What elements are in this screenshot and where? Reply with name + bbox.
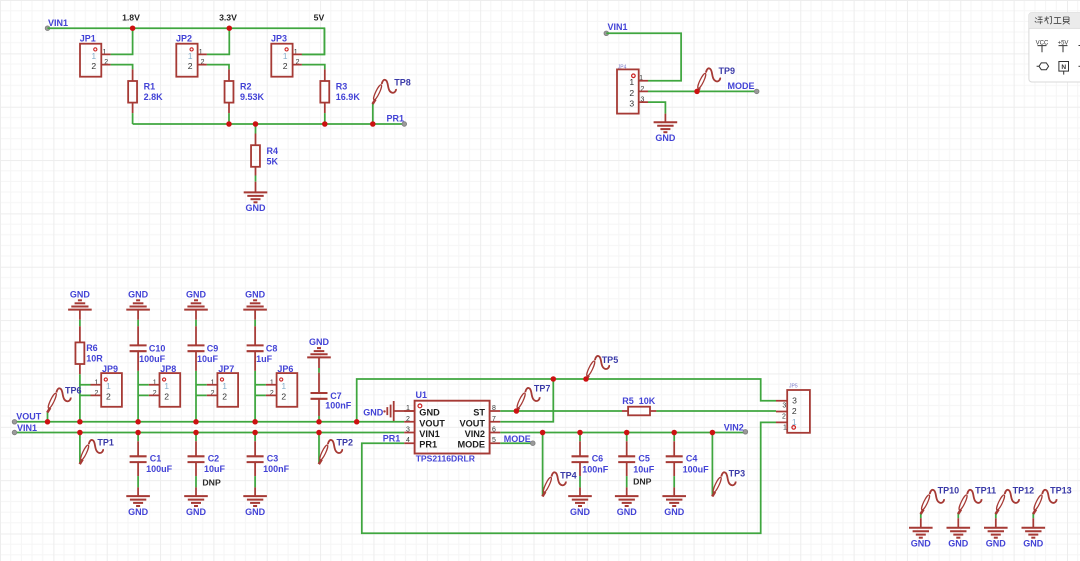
resistor R1 2.8K [132, 69, 134, 113]
svg-text:1: 1 [783, 424, 787, 431]
node VIN2 port [743, 430, 748, 435]
svg-text:TP13: TP13 [1050, 485, 1072, 495]
ground above C8 [243, 300, 267, 309]
svg-text:JP5: JP5 [789, 384, 798, 390]
ground below C2 [195, 487, 197, 496]
wire C6 to ground [579, 476, 581, 487]
wire C5 to ground [626, 476, 628, 487]
svg-text:100nF: 100nF [263, 464, 290, 474]
junction VIN1 bus [316, 430, 322, 436]
wire TP8 to PR1 bus [372, 103, 374, 124]
svg-text:3: 3 [792, 395, 797, 405]
resistor R4 5K [255, 134, 257, 176]
wire riser to U1 pin7 [500, 379, 553, 422]
wire R1 bottom to PR1 bus [132, 113, 134, 124]
capacitor C3 100nF [254, 433, 256, 442]
test point TP5 [585, 356, 609, 380]
junction R4/bus [253, 121, 259, 127]
svg-text:C8: C8 [266, 344, 278, 354]
test point TP3 [712, 472, 736, 496]
svg-text:C6: C6 [592, 454, 604, 464]
svg-text:VOUT: VOUT [459, 418, 485, 428]
svg-text:100uF: 100uF [683, 464, 710, 474]
svg-text:ST: ST [473, 408, 485, 418]
wire R6 to VOUT bus [79, 374, 81, 422]
junction 1.8V [130, 25, 136, 31]
svg-text:1.8V: 1.8V [122, 13, 140, 23]
svg-text:GND: GND [363, 407, 384, 417]
wire PR1 loop [362, 422, 776, 533]
svg-text:2.8K: 2.8K [144, 92, 164, 102]
JP9 pin stubs [91, 385, 102, 396]
svg-text:6: 6 [492, 427, 496, 434]
resistor R6 10R [79, 326, 81, 374]
wire TP3 drop [711, 433, 713, 496]
capacitor C1 100uF [137, 433, 139, 442]
svg-text:1: 1 [283, 51, 288, 61]
junction VOUT bus [135, 419, 141, 425]
svg-text:7: 7 [492, 416, 496, 423]
svg-text:GND: GND [246, 203, 267, 213]
svg-text:C2: C2 [208, 453, 220, 463]
node MODE port (top) [754, 89, 759, 94]
junction TP5 [583, 376, 589, 382]
wire JP9 pins to column [80, 385, 91, 396]
svg-text:10uF: 10uF [204, 464, 226, 474]
capacitor C9 10uF [195, 326, 197, 371]
svg-text:GND: GND [186, 289, 207, 299]
U1 left pin stubs [404, 411, 414, 443]
wire TP1 to VIN1 bus [79, 433, 81, 464]
svg-text:100uF: 100uF [146, 464, 173, 474]
junction VIN2 row [540, 430, 546, 436]
wire C2 to ground [195, 476, 197, 487]
wire JP6 pins to column [255, 385, 266, 396]
svg-text:10R: 10R [86, 354, 103, 364]
svg-text:PR1: PR1 [419, 440, 437, 450]
junction VIN1 bus [135, 430, 141, 436]
svg-text:VIN1: VIN1 [48, 18, 68, 28]
svg-text:N: N [1061, 64, 1066, 71]
svg-text:TPS2116DRLR: TPS2116DRLR [416, 454, 476, 464]
ground below R4 [255, 182, 257, 193]
ground below TP11 [957, 518, 959, 528]
svg-text:TP6: TP6 [65, 386, 82, 396]
svg-text:MODE: MODE [728, 81, 755, 91]
svg-text:JP1: JP1 [80, 34, 96, 44]
svg-text:GND: GND [617, 507, 638, 517]
svg-text:GND: GND [128, 507, 149, 517]
svg-text:GND: GND [70, 289, 91, 299]
capacitor C4 100uF [673, 433, 675, 442]
wire C10 to VOUT bus [137, 371, 139, 422]
svg-text:1: 1 [222, 381, 227, 391]
svg-text:5K: 5K [267, 156, 279, 166]
capacitor C5 10uF [626, 433, 628, 442]
wire ground to C8 [254, 310, 256, 320]
svg-text:TP9: TP9 [719, 66, 736, 76]
svg-text:9.53K: 9.53K [240, 92, 265, 102]
svg-text:C3: C3 [267, 453, 279, 463]
ground below C5 [626, 487, 628, 496]
wire ground to C9 [195, 310, 197, 320]
node PR1 port (top) [402, 122, 407, 127]
wire ground to R6 [79, 310, 81, 320]
JP8 pin stubs [149, 385, 160, 396]
JP6 pin stubs [266, 385, 277, 396]
ground JP4 pin3 [664, 114, 666, 123]
svg-text:MODE: MODE [504, 434, 531, 444]
svg-text:GND: GND [664, 507, 685, 517]
node VIN1 port (top-right) [604, 31, 609, 36]
junction TP7 [514, 408, 520, 414]
svg-text:2: 2 [406, 416, 410, 423]
svg-text:JP3: JP3 [271, 34, 287, 44]
svg-text:10K: 10K [639, 396, 656, 406]
wire C1 to ground [137, 476, 139, 487]
svg-text:TP3: TP3 [729, 469, 746, 479]
wire JP4 pin3 to ground [648, 102, 665, 114]
svg-text:2: 2 [283, 61, 288, 71]
svg-text:DNP: DNP [202, 478, 221, 488]
svg-text:2: 2 [91, 61, 96, 71]
test point TP11 [958, 490, 982, 514]
svg-text:VIN1: VIN1 [419, 429, 439, 439]
capacitor C6 100nF [579, 433, 581, 442]
junction VOUT riser [551, 376, 557, 382]
wire JP8 pins to column [138, 385, 149, 396]
test point TP4 [542, 472, 566, 496]
ground above C7 [307, 348, 331, 357]
junction VIN2 row [671, 430, 677, 436]
svg-text:GND: GND [245, 289, 266, 299]
svg-text:R3: R3 [336, 82, 348, 92]
junction VIN1 bus [252, 430, 258, 436]
svg-text:2: 2 [164, 392, 169, 402]
svg-text:3: 3 [406, 427, 410, 434]
svg-text:2: 2 [188, 61, 193, 71]
test point TP12 [995, 490, 1019, 514]
svg-text:R5: R5 [622, 396, 634, 406]
wire R5 to JP5 pin2 [656, 410, 776, 412]
svg-text:TP2: TP2 [337, 437, 354, 447]
wire TP4 drop [542, 433, 544, 496]
node VOUT port [12, 420, 17, 425]
svg-text:1: 1 [164, 381, 169, 391]
test point TP2 [318, 440, 342, 464]
wire R2 bottom to PR1 bus [228, 113, 230, 124]
wire VIN1 horizontal to 5V corner [48, 28, 325, 54]
wire U1 ST to R5 [500, 410, 622, 412]
svg-text:GND: GND [245, 507, 266, 517]
svg-text:3: 3 [629, 99, 634, 109]
capacitor C8 1uF [254, 326, 256, 371]
svg-text:TP12: TP12 [1013, 485, 1035, 495]
wire ground to C10 [137, 310, 139, 320]
wire R3 bottom to PR1 bus [324, 113, 326, 124]
svg-text:VIN2: VIN2 [465, 429, 485, 439]
svg-text:16.9K: 16.9K [336, 92, 361, 102]
wire JP2 pin2 to R2 [207, 65, 229, 70]
svg-text:GND: GND [911, 539, 932, 549]
svg-text:R2: R2 [240, 82, 252, 92]
resistor R3 16.9K [324, 69, 326, 113]
junction VOUT bus [193, 419, 199, 425]
svg-text:U1: U1 [416, 390, 428, 400]
JP4 pin stubs [639, 81, 648, 102]
svg-text:GND: GND [128, 289, 149, 299]
wire JP7 pins to column [196, 385, 207, 396]
ground below TP12 [995, 518, 997, 528]
wire PR1 bus (top) [133, 123, 405, 125]
svg-text:2: 2 [281, 392, 286, 402]
junction VIN2 row [710, 430, 716, 436]
svg-text:R1: R1 [144, 82, 156, 92]
junction VIN1 bus [77, 430, 83, 436]
wire C3 to ground [254, 476, 256, 487]
svg-text:1: 1 [106, 381, 111, 391]
junction VOUT bus [354, 419, 360, 425]
svg-text:MODE: MODE [457, 440, 485, 450]
svg-text:R4: R4 [267, 146, 279, 156]
svg-text:GND: GND [570, 507, 591, 517]
svg-text:TP1: TP1 [97, 437, 114, 447]
svg-text:1uF: 1uF [256, 354, 273, 364]
ground below C3 [254, 487, 256, 496]
svg-text:GND: GND [309, 337, 330, 347]
capacitor C2 10uF [195, 433, 197, 442]
svg-text:VOUT: VOUT [16, 412, 42, 422]
wire VOUT bus [15, 421, 405, 423]
svg-text:TP11: TP11 [975, 485, 996, 495]
wire GND flag to U1 pin1 [394, 410, 415, 412]
svg-text:TP5: TP5 [602, 355, 619, 365]
svg-text:R6: R6 [86, 343, 98, 353]
svg-text:C9: C9 [207, 344, 219, 354]
junction R3/bus [322, 121, 328, 127]
svg-text:DNP: DNP [633, 476, 652, 486]
wire C9 to VOUT bus [195, 371, 197, 422]
test point TP6 [47, 388, 71, 412]
svg-text:VIN1: VIN1 [608, 22, 628, 32]
svg-text:GND: GND [419, 408, 440, 418]
svg-text:10uF: 10uF [197, 354, 219, 364]
svg-text:2: 2 [792, 406, 797, 416]
wire C8 to VOUT bus [254, 371, 256, 422]
JP7 pin stubs [207, 385, 218, 396]
svg-text:3.3V: 3.3V [219, 13, 237, 23]
svg-text:C7: C7 [330, 391, 342, 401]
wire TP11 to ground [957, 513, 959, 518]
junction 3.3V [227, 25, 233, 31]
svg-text:PR1: PR1 [387, 113, 405, 123]
svg-text:GND: GND [1023, 539, 1044, 549]
svg-text:2: 2 [106, 392, 111, 402]
svg-text:C10: C10 [149, 344, 166, 354]
ground above C9 [184, 300, 208, 309]
wire VOUT bus up and across to JP5 pin3 [357, 379, 776, 422]
wire U1 MODE to port [500, 442, 533, 444]
JP5 pin stubs [776, 401, 787, 423]
junction R2/bus [226, 121, 232, 127]
wire TP6 to VOUT bus [47, 411, 49, 422]
junction VOUT bus [316, 419, 322, 425]
svg-text:C5: C5 [638, 454, 650, 464]
svg-text:GND: GND [186, 507, 207, 517]
junction VIN2 row [624, 430, 630, 436]
test point TP13 [1033, 490, 1057, 514]
ground below C4 [673, 487, 675, 496]
test point TP1 [79, 440, 103, 464]
ground below C1 [137, 487, 139, 496]
resistor R2 9.53K [228, 69, 230, 113]
svg-text:100nF: 100nF [325, 401, 352, 411]
ground above C10 [126, 300, 150, 309]
junction VOUT bus [45, 419, 51, 425]
ground below TP13 [1032, 518, 1034, 528]
junction VOUT bus [252, 419, 258, 425]
test point TP10 [920, 490, 944, 514]
wire R4 bottom to ground [255, 176, 257, 182]
floating tool panel [1029, 13, 1080, 82]
svg-text:3: 3 [782, 403, 786, 410]
wire TP13 to ground [1032, 513, 1034, 518]
svg-text:2: 2 [782, 413, 786, 420]
svg-text:1: 1 [792, 417, 797, 427]
wire TP10 to ground [920, 513, 922, 518]
svg-text:8: 8 [492, 405, 496, 412]
node MODE port (bottom) [531, 441, 536, 446]
wire bus to R4 [255, 124, 257, 134]
wire JP1 pin1 to 1.8V [111, 28, 133, 54]
svg-text:2: 2 [629, 88, 634, 98]
svg-text:TP10: TP10 [938, 485, 960, 495]
junction VIN1 bus [193, 430, 199, 436]
svg-text:VIN1: VIN1 [17, 423, 37, 433]
ground below TP10 [920, 518, 922, 528]
U1 right pin stubs [490, 411, 501, 443]
svg-text:5: 5 [492, 437, 496, 444]
test point TP8 [372, 80, 396, 104]
wire U1 VIN2 to VIN2 port [500, 432, 745, 434]
svg-text:C1: C1 [150, 453, 162, 463]
svg-text:GND: GND [655, 133, 676, 143]
svg-text:4: 4 [406, 437, 410, 444]
svg-text:C4: C4 [686, 454, 698, 464]
junction TP9 [694, 89, 700, 95]
JP2 pin stubs [198, 54, 207, 64]
svg-text:1: 1 [91, 51, 96, 61]
test point TP9 [696, 68, 720, 92]
svg-text:2: 2 [222, 392, 227, 402]
svg-text:5V: 5V [314, 13, 325, 23]
wire C7 to VOUT bus [318, 416, 320, 422]
svg-text:TP8: TP8 [394, 77, 411, 87]
junction VOUT bus [77, 419, 83, 425]
wire JP1 pin2 to R1 [111, 65, 133, 70]
svg-text:JP2: JP2 [176, 34, 192, 44]
wire ground to C7 [318, 357, 320, 368]
ground below C6 [579, 487, 581, 496]
svg-text:100nF: 100nF [582, 464, 609, 474]
wire TP12 to ground [995, 513, 997, 518]
capacitor C10 100uF [137, 326, 139, 371]
wire JP4 pin2 to MODE [648, 90, 757, 92]
svg-text:TP7: TP7 [534, 384, 551, 394]
svg-text:10uF: 10uF [633, 464, 655, 474]
svg-text:VIN2: VIN2 [724, 422, 744, 432]
node VIN1 port (top-left) [45, 26, 50, 31]
svg-text:GND: GND [986, 539, 1007, 549]
svg-text:PR1: PR1 [383, 433, 401, 443]
junction VIN2 row [577, 430, 583, 436]
wire VIN1 bus [15, 432, 405, 434]
capacitor C7 100nF [318, 373, 320, 416]
ground above R6 [68, 300, 92, 309]
svg-text:1: 1 [629, 77, 634, 87]
wire JP2 pin1 to 3.3V [207, 28, 229, 54]
svg-text:100uF: 100uF [139, 354, 166, 364]
svg-text:VOUT: VOUT [419, 418, 445, 428]
resistor R5 10K [622, 410, 656, 412]
JP1 pin stubs [101, 54, 110, 64]
wire JP3 pin1 to 5V [302, 28, 325, 54]
svg-text:1: 1 [281, 381, 286, 391]
wire TP2 to VIN1 bus [318, 433, 320, 464]
wire JP3 pin2 to R3 [302, 65, 325, 70]
JP3 pin stubs [293, 54, 302, 64]
wire VIN1 to JP4 pin1 [606, 33, 681, 80]
wire C4 to ground [673, 476, 675, 487]
test point TP7 [516, 388, 540, 412]
junction TP8/bus [370, 121, 376, 127]
svg-text:GND: GND [948, 539, 969, 549]
node VIN1 port (bottom) [12, 430, 17, 435]
svg-text:1: 1 [188, 51, 193, 61]
svg-text:TP4: TP4 [560, 471, 577, 481]
